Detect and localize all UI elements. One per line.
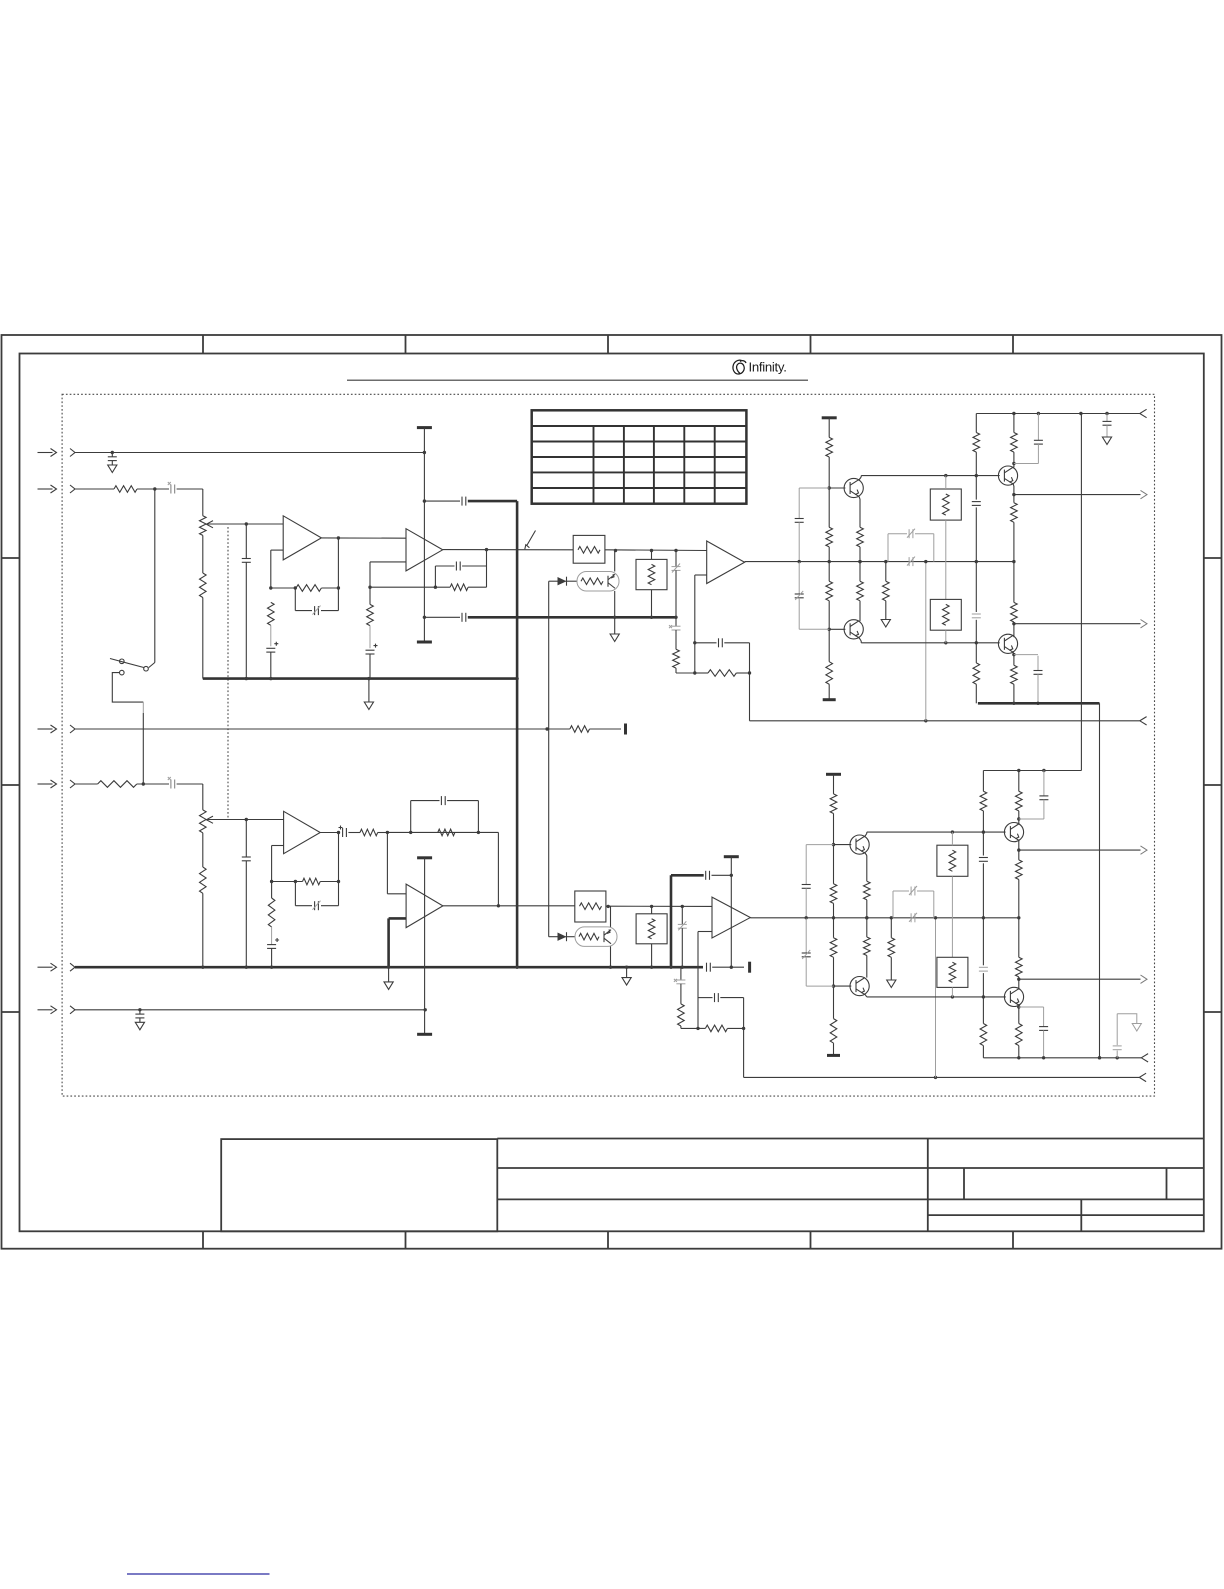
capacitor C42 bbox=[1113, 1014, 1137, 1058]
supply rail bar bbox=[417, 1033, 432, 1036]
capacitor C13 bbox=[672, 551, 681, 620]
wire bbox=[202, 535, 204, 573]
op-amp U1B bbox=[406, 529, 443, 571]
wire bbox=[548, 581, 550, 937]
capacitor C15 bbox=[695, 638, 750, 647]
bottom rail wire bbox=[983, 1056, 1141, 1059]
wire bbox=[201, 893, 204, 969]
capacitor C8 bbox=[242, 524, 251, 679]
wire bbox=[1012, 467, 1015, 502]
output arrow bbox=[1141, 620, 1148, 628]
wire bbox=[549, 936, 558, 938]
resistor R41 bbox=[1016, 860, 1023, 880]
input arrow J2 bbox=[38, 485, 57, 493]
input arrow J1 bbox=[38, 449, 57, 457]
resistor R9 bbox=[673, 649, 680, 668]
ground bbox=[622, 978, 631, 986]
resistor R13 bbox=[826, 581, 833, 601]
resistor R20 bbox=[1011, 433, 1018, 453]
resistor R43 bbox=[1016, 1024, 1023, 1046]
capacitor C31 bbox=[674, 967, 686, 1004]
capacitor C36 bbox=[909, 913, 917, 923]
resistor R27 bbox=[268, 898, 275, 927]
resistor R18 bbox=[973, 433, 980, 453]
capacitor C37 bbox=[893, 886, 934, 918]
supply bar bbox=[826, 773, 841, 776]
wire bbox=[549, 580, 558, 582]
capacitor C33 bbox=[706, 871, 732, 880]
resistor R30 bbox=[705, 1025, 727, 1032]
resistor R42 bbox=[1016, 957, 1023, 977]
wire bbox=[834, 985, 852, 987]
wire bbox=[566, 580, 578, 582]
thermistor RT4 bbox=[636, 914, 667, 944]
wire bbox=[982, 1046, 984, 1058]
transistor Q6 bbox=[850, 977, 869, 996]
bus terminal bbox=[748, 962, 751, 973]
capacitor C5 bbox=[135, 1008, 144, 1022]
op-amp U2A bbox=[707, 541, 745, 584]
parts table bbox=[532, 410, 747, 503]
wire bbox=[951, 987, 953, 997]
wire bbox=[320, 880, 340, 883]
wire bbox=[864, 852, 866, 881]
thermistor RT3 bbox=[930, 599, 961, 630]
wire bbox=[388, 967, 390, 982]
center wire bbox=[750, 916, 1020, 919]
ground bbox=[108, 465, 117, 473]
resistor R1 bbox=[114, 486, 137, 493]
resistor R3 bbox=[98, 781, 137, 788]
wire bbox=[861, 641, 1000, 644]
wire bbox=[75, 783, 98, 785]
wire bbox=[320, 831, 340, 834]
resistor R17 bbox=[883, 581, 890, 601]
capacitor C19 bbox=[888, 529, 934, 562]
wire bbox=[435, 586, 486, 588]
resistor R8 bbox=[367, 604, 374, 625]
wire bbox=[321, 536, 406, 539]
resistor R19 bbox=[973, 663, 980, 684]
capacitor C1 bbox=[108, 451, 117, 465]
input arrow J6 bbox=[38, 1006, 57, 1014]
wire bbox=[1013, 522, 1015, 602]
wire bbox=[730, 857, 733, 969]
ground bbox=[364, 702, 373, 710]
wire bbox=[137, 487, 169, 490]
resistor R26 bbox=[303, 878, 321, 885]
connector pin J1 bbox=[70, 449, 75, 457]
transistor Q8 bbox=[1004, 987, 1023, 1006]
capacitor C41 bbox=[1019, 1007, 1048, 1060]
capacitor C24 bbox=[1014, 655, 1043, 705]
transistor Q3 bbox=[998, 466, 1017, 485]
supply rail bar -V bbox=[417, 641, 432, 644]
resistor block F2 bbox=[575, 891, 606, 922]
capacitor C27 bbox=[295, 882, 338, 911]
resistor R40 bbox=[1016, 791, 1023, 811]
capacitor C28 bbox=[267, 938, 279, 969]
wire bbox=[387, 831, 498, 834]
wire bbox=[202, 489, 204, 516]
ground bbox=[384, 982, 393, 990]
switch SW1 bbox=[110, 489, 155, 675]
wire bbox=[337, 538, 339, 588]
capacitor C4 bbox=[707, 963, 711, 972]
op-amp U2B bbox=[712, 897, 750, 938]
wire bbox=[828, 418, 830, 438]
wire bbox=[207, 818, 284, 821]
resistor R2 bbox=[570, 726, 590, 733]
capacitor C39 bbox=[979, 967, 988, 971]
wire bbox=[338, 833, 340, 882]
output arrow bbox=[1141, 490, 1148, 498]
wire bbox=[864, 994, 1005, 999]
resistor R31 bbox=[830, 794, 837, 814]
wire bbox=[865, 900, 868, 920]
capacitor C20 bbox=[1103, 414, 1112, 438]
wire bbox=[348, 832, 360, 834]
wire bbox=[142, 702, 144, 784]
resistor R37 bbox=[888, 938, 895, 958]
wire bbox=[861, 474, 1000, 477]
capacitor C16 bbox=[795, 488, 830, 563]
wire bbox=[866, 918, 868, 978]
output arrow bbox=[1141, 975, 1148, 983]
capacitor C2 bbox=[168, 482, 175, 494]
wire bbox=[695, 672, 750, 674]
transistor Q2 bbox=[844, 620, 863, 639]
wire bbox=[1012, 651, 1015, 665]
wire bbox=[423, 428, 426, 642]
wire bbox=[828, 457, 831, 527]
capacitor C23 bbox=[1014, 414, 1043, 464]
wire bbox=[271, 550, 283, 588]
wire bbox=[832, 814, 835, 884]
negative rail bbox=[978, 702, 1100, 705]
svg-text:Infinity.: Infinity. bbox=[749, 360, 787, 375]
capacitor C12 bbox=[366, 644, 378, 679]
resistor R38 bbox=[980, 791, 987, 811]
wire bbox=[566, 936, 576, 938]
wire bbox=[272, 846, 284, 882]
wire bbox=[1017, 824, 1020, 860]
ground bbox=[887, 980, 896, 988]
diode D2 bbox=[558, 932, 567, 941]
wire bbox=[742, 998, 745, 1078]
bus wire bbox=[515, 501, 518, 969]
wire bbox=[671, 874, 704, 877]
wire bbox=[885, 562, 887, 620]
capacitor C10 bbox=[266, 642, 278, 679]
wire bbox=[202, 598, 204, 679]
capacitor C3 bbox=[168, 777, 175, 789]
wire bbox=[698, 1027, 744, 1029]
mid bus wire bbox=[468, 616, 676, 619]
wire bbox=[982, 771, 984, 856]
wire bbox=[1098, 703, 1101, 1059]
terminal bbox=[1141, 1054, 1148, 1062]
wire bbox=[693, 575, 707, 673]
wire bbox=[625, 966, 628, 978]
wire bbox=[982, 863, 984, 965]
rail end bar bbox=[827, 1054, 840, 1057]
wire bbox=[606, 905, 712, 908]
wire bbox=[744, 1076, 1139, 1079]
capacitor C18 bbox=[907, 557, 915, 567]
wire bbox=[1012, 622, 1015, 637]
wire bbox=[321, 586, 340, 589]
wire bbox=[443, 549, 574, 551]
wire bbox=[945, 476, 947, 600]
resistor R32 bbox=[830, 884, 837, 904]
wire bbox=[424, 858, 426, 1035]
resistor R25 bbox=[360, 829, 378, 836]
wire bbox=[590, 728, 622, 730]
optocoupler IC2 bbox=[575, 927, 617, 947]
output arrow bbox=[1141, 846, 1148, 854]
wire bbox=[828, 684, 830, 700]
positive rail bbox=[983, 769, 1081, 772]
wire bbox=[712, 966, 744, 968]
wire bbox=[975, 620, 977, 663]
op-amp U1D bbox=[406, 884, 443, 928]
thermistor RT5 bbox=[937, 845, 968, 876]
wire bbox=[387, 918, 390, 969]
wire bbox=[859, 496, 861, 528]
resistor R10 bbox=[708, 670, 736, 677]
wire bbox=[614, 551, 616, 572]
wire bbox=[925, 562, 927, 721]
connector pin J2 bbox=[70, 485, 75, 493]
wire bbox=[975, 414, 977, 500]
ground bbox=[1132, 1024, 1141, 1032]
wire bbox=[207, 522, 284, 525]
capacitor C29 bbox=[411, 796, 479, 832]
wire bbox=[750, 719, 1140, 722]
resistor R36 bbox=[864, 937, 871, 955]
wire bbox=[270, 625, 272, 646]
thermistor RT2 bbox=[930, 489, 961, 520]
resistor R35 bbox=[864, 881, 871, 900]
wire bbox=[676, 668, 697, 675]
center wire bbox=[745, 560, 1016, 563]
wire bbox=[497, 832, 500, 907]
wire bbox=[651, 551, 653, 618]
resistor R15 bbox=[857, 527, 864, 547]
wire bbox=[177, 488, 203, 490]
wire bbox=[378, 831, 389, 834]
thermistor RT6 bbox=[937, 957, 968, 987]
wire bbox=[368, 586, 437, 589]
wire bbox=[75, 1008, 427, 1011]
resistor R34 bbox=[830, 1019, 837, 1043]
supply rail wire bbox=[976, 412, 1139, 415]
wire bbox=[1018, 880, 1020, 918]
wire bbox=[605, 549, 707, 552]
op-amp U1A bbox=[283, 516, 321, 560]
wire bbox=[1018, 1046, 1020, 1058]
wire bbox=[368, 679, 370, 702]
wire bbox=[975, 507, 977, 612]
wire bbox=[1012, 414, 1015, 468]
resistor R22 bbox=[1011, 602, 1018, 622]
capacitor C7 bbox=[424, 613, 465, 622]
wire bbox=[609, 946, 612, 969]
wire bbox=[982, 973, 984, 1023]
wire bbox=[828, 547, 831, 581]
resistor R29 bbox=[678, 1004, 685, 1026]
wire bbox=[864, 832, 866, 837]
input arrow J4 bbox=[38, 780, 57, 788]
input arrow J5 bbox=[38, 963, 57, 971]
capacitor C40 bbox=[1019, 771, 1049, 820]
wire bbox=[859, 637, 862, 643]
ground bbox=[1102, 437, 1111, 445]
wire bbox=[269, 586, 297, 589]
wire bbox=[951, 832, 953, 957]
capacitor C38 bbox=[979, 858, 988, 862]
resistor R6 bbox=[267, 602, 274, 625]
wire bbox=[859, 476, 862, 481]
wire bbox=[1013, 684, 1015, 703]
wire bbox=[270, 880, 303, 883]
wire bbox=[387, 832, 406, 893]
optocoupler IC1 bbox=[577, 572, 619, 592]
output wire bbox=[1014, 623, 1141, 625]
wire bbox=[389, 917, 407, 920]
ground bus CH1 bbox=[203, 677, 517, 680]
capacitor C6 bbox=[424, 497, 465, 506]
output wire bbox=[1014, 494, 1141, 496]
wire bbox=[698, 932, 712, 1029]
wire bbox=[945, 630, 947, 643]
connector pin J6 bbox=[70, 1006, 75, 1014]
wire bbox=[1017, 771, 1020, 824]
capacitor C25 bbox=[242, 820, 251, 969]
wire bbox=[485, 548, 488, 566]
resistor R21 bbox=[1011, 503, 1018, 523]
transistor Q7 bbox=[1004, 823, 1023, 842]
ground bbox=[610, 634, 619, 642]
capacitor C32 bbox=[698, 993, 744, 1002]
wire bbox=[202, 833, 204, 867]
wire bbox=[137, 782, 169, 785]
wire bbox=[650, 906, 653, 969]
ground bus wire bbox=[75, 966, 703, 969]
supply rail bar +V bbox=[417, 426, 432, 429]
wire bbox=[832, 903, 835, 937]
supply bar bbox=[417, 856, 432, 859]
wire bbox=[443, 905, 575, 907]
capacitor C35 bbox=[802, 918, 834, 986]
resistor R16 bbox=[857, 581, 864, 601]
annotation arrow bbox=[525, 531, 536, 550]
connector pin J4 bbox=[70, 780, 75, 788]
wire bbox=[1017, 918, 1020, 989]
wire bbox=[858, 547, 861, 563]
wire bbox=[202, 784, 204, 810]
capacitor C34 bbox=[802, 845, 834, 920]
resistor R39 bbox=[980, 1024, 987, 1046]
wire bbox=[669, 875, 672, 969]
input arrow J3 bbox=[38, 725, 57, 733]
resistor R33 bbox=[830, 938, 837, 958]
wire bbox=[112, 673, 143, 703]
wire bbox=[468, 500, 517, 503]
capacitor C22 bbox=[972, 614, 981, 618]
wire bbox=[271, 882, 273, 945]
op-amp U1C bbox=[284, 811, 321, 853]
resistor R14 bbox=[826, 662, 833, 685]
resistor R11 bbox=[826, 437, 833, 457]
wire bbox=[833, 774, 835, 794]
wire bbox=[370, 562, 406, 587]
wire bbox=[614, 591, 616, 634]
system boundary (dotted) bbox=[62, 394, 1154, 1096]
wire bbox=[975, 684, 977, 703]
capacitor C21 bbox=[972, 502, 981, 506]
diode D1 bbox=[558, 577, 567, 586]
terminal bbox=[1139, 1073, 1146, 1081]
wire bbox=[681, 1026, 700, 1030]
potentiometer VR2 bbox=[200, 810, 214, 833]
wire bbox=[177, 783, 203, 785]
wire bbox=[1080, 414, 1082, 771]
capacitor C11 bbox=[435, 562, 486, 588]
wire bbox=[867, 830, 1006, 833]
thermistor RT1 bbox=[636, 559, 667, 589]
rail terminal bbox=[1140, 409, 1147, 417]
wire bbox=[75, 727, 570, 730]
wire bbox=[748, 643, 751, 721]
wire bbox=[859, 562, 861, 622]
terminal bbox=[1140, 717, 1147, 725]
resistor R12 bbox=[826, 527, 833, 547]
resistor R24 bbox=[200, 867, 207, 893]
terminal stub bbox=[624, 724, 627, 735]
connector pin J5 bbox=[70, 963, 75, 971]
output wire bbox=[1019, 849, 1141, 851]
wire bbox=[369, 587, 371, 648]
capacitor C30 bbox=[678, 906, 687, 969]
transistor Q4 bbox=[998, 634, 1017, 653]
transistor Q1 bbox=[844, 478, 863, 497]
wire bbox=[828, 601, 831, 662]
resistor R23 bbox=[1011, 665, 1018, 684]
output wire bbox=[1019, 978, 1141, 980]
ground bbox=[135, 1022, 144, 1030]
wire bbox=[833, 1043, 835, 1055]
resistor R5 bbox=[296, 585, 321, 592]
capacitor C9 bbox=[295, 588, 338, 615]
rail end bar bbox=[823, 698, 836, 701]
resistor R4 bbox=[200, 573, 207, 597]
wire bbox=[829, 628, 845, 630]
wire bbox=[75, 488, 114, 490]
resistor R7 bbox=[450, 584, 468, 591]
connector pin J3 bbox=[70, 725, 75, 733]
potentiometer VR1 bbox=[200, 516, 214, 536]
wire bbox=[75, 452, 424, 454]
capacitor C14 bbox=[669, 617, 681, 649]
wire bbox=[829, 487, 845, 489]
supply bar bbox=[822, 416, 837, 419]
wire bbox=[610, 906, 612, 927]
capacitor C17 bbox=[795, 562, 830, 630]
capacitor C26 bbox=[339, 826, 347, 838]
wire bbox=[1017, 989, 1020, 1023]
